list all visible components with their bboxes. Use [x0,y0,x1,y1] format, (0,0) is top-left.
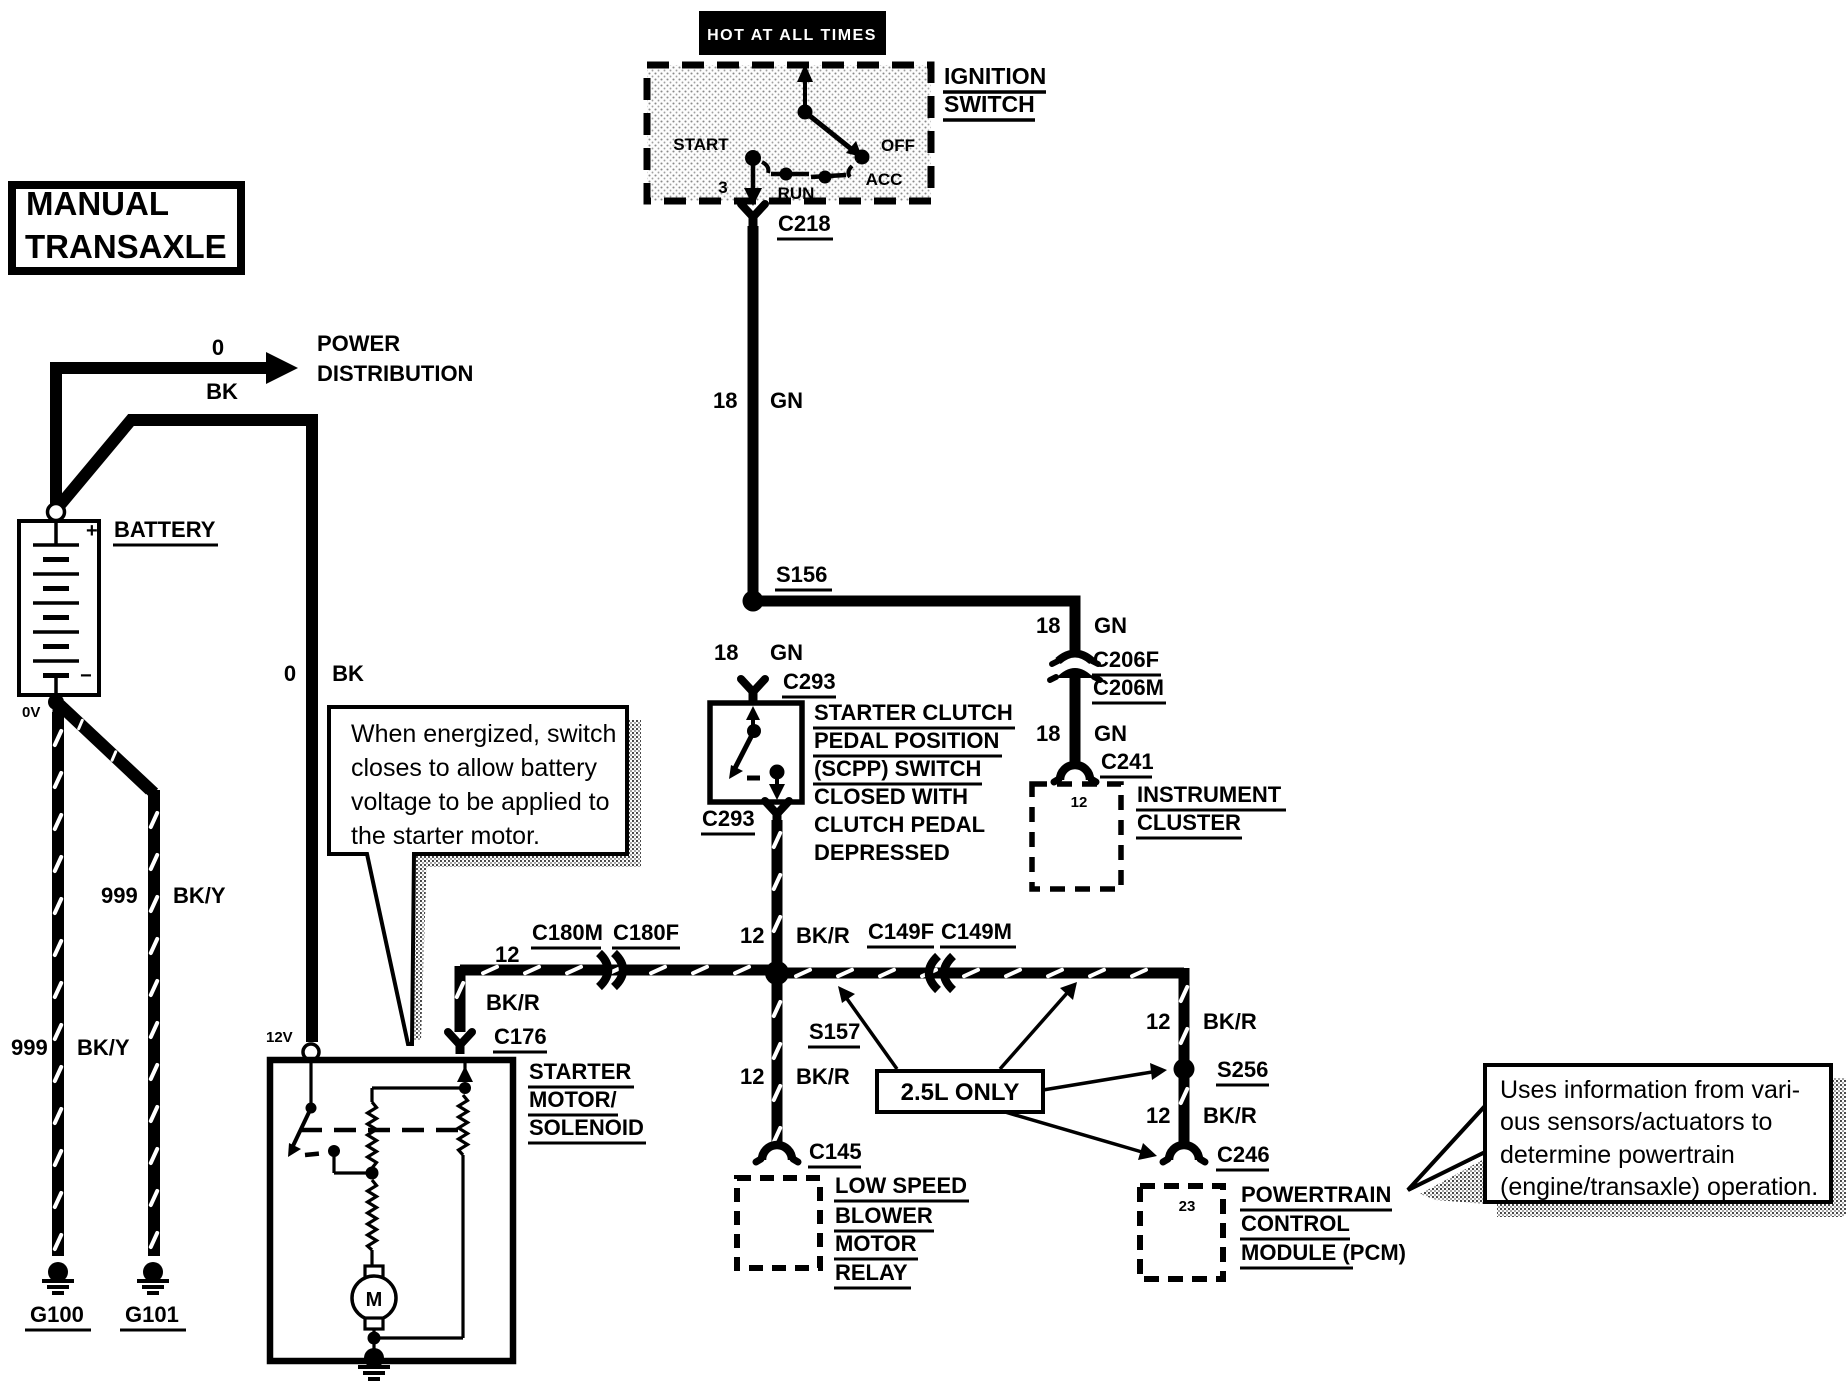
svg-text:CONTROL: CONTROL [1241,1211,1350,1236]
svg-text:12V: 12V [266,1029,293,1046]
svg-text:12: 12 [1146,1009,1170,1034]
svg-text:STARTER CLUTCH: STARTER CLUTCH [814,700,1013,725]
svg-text:C180F: C180F [613,920,679,945]
svg-text:C180M: C180M [532,920,603,945]
svg-text:C149F: C149F [868,919,934,944]
svg-text:BK/R: BK/R [796,923,850,948]
svg-text:BK: BK [206,379,238,404]
callout shadow [412,720,641,1040]
svg-text:closes to allow battery: closes to allow battery [351,754,597,782]
motor field winding [368,1180,377,1268]
svg-text:voltage to be applied to: voltage to be applied to [351,788,610,816]
svg-text:C293: C293 [783,669,836,694]
svg-text:S156: S156 [776,562,827,587]
svg-text:GN: GN [770,640,803,665]
starter 12V terminal [303,1044,319,1060]
contact OFF [855,150,870,165]
connector C176 [448,1032,472,1054]
svg-text:POWERTRAIN: POWERTRAIN [1241,1182,1391,1207]
svg-text:the starter motor.: the starter motor. [351,822,540,850]
svg-text:MOTOR/: MOTOR/ [529,1087,617,1112]
motor M [352,1266,396,1352]
svg-text:0V: 0V [22,704,40,721]
svg-text:ous sensors/actuators to: ous sensors/actuators to [1500,1108,1772,1136]
svg-text:C218: C218 [778,211,831,236]
svg-text:3: 3 [718,178,727,197]
svg-text:2.5L ONLY: 2.5L ONLY [901,1079,1020,1106]
svg-text:C246: C246 [1217,1142,1270,1167]
battery [19,521,99,695]
connector C218 [741,204,765,226]
power feed box HOT AT ALL TIMES [699,11,886,55]
svg-text:23: 23 [1179,1198,1196,1215]
wire drop to C176 [457,966,463,1032]
svg-text:C206M: C206M [1093,675,1164,700]
svg-text:LOW SPEED: LOW SPEED [835,1173,967,1198]
svg-text:BK/R: BK/R [486,990,540,1015]
wire 12 BK/R C293 to S157 [774,820,780,968]
connector C206F C206M [1050,654,1100,681]
ignition switch box [647,65,931,201]
starter ground [358,1348,390,1379]
svg-text:C149M: C149M [941,919,1012,944]
connector C241 [1054,765,1096,782]
svg-text:18: 18 [714,640,738,665]
wire 18 GN to C241 [1070,677,1081,768]
wire 12 BK/R to S256 [1181,968,1187,1064]
battery negative terminal [48,694,64,710]
svg-text:999: 999 [11,1035,48,1060]
svg-text:0: 0 [212,335,224,360]
svg-text:18: 18 [1036,613,1060,638]
contact RUN [771,168,809,181]
svg-text:S256: S256 [1217,1057,1268,1082]
connector C149F C149M [929,956,953,990]
svg-text:12: 12 [1071,794,1088,811]
solenoid pull-in winding [366,1088,466,1180]
contact ACC [811,171,846,184]
svg-text:CLUTCH PEDAL: CLUTCH PEDAL [814,812,985,837]
splice S256 [1174,1059,1195,1080]
wire 999 BK/Y to G100 [53,708,64,1256]
connector C246 [1163,1145,1205,1162]
svg-text:START: START [673,135,729,154]
arrow to C246 wire [1005,1112,1157,1160]
svg-text:TRANSAXLE: TRANSAXLE [25,228,227,265]
svg-text:GN: GN [1094,721,1127,746]
callout uses information [1408,1065,1831,1202]
svg-text:BATTERY: BATTERY [114,517,216,542]
plunger dashed linkage [300,1128,465,1133]
connector C293 top [741,679,765,701]
wire battery to power distribution [56,352,298,508]
svg-text:MODULE (PCM): MODULE (PCM) [1241,1240,1406,1265]
svg-text:CLOSED WITH: CLOSED WITH [814,784,968,809]
svg-text:18: 18 [1036,721,1060,746]
callout 2 shadow [1420,1078,1846,1217]
wire 999 BK/Y to G101 [60,705,154,793]
title box MANUAL TRANSAXLE [12,185,241,271]
svg-text:12: 12 [740,1064,764,1089]
connector C145 [756,1145,798,1162]
wire 12 BK/R S157 to C145 [774,979,780,1146]
wire 12 BK/R S256 to C246 [1181,1074,1187,1146]
svg-text:DISTRIBUTION: DISTRIBUTION [317,361,473,386]
svg-text:C293: C293 [702,806,755,831]
ground G101 [137,1262,169,1293]
svg-text:GN: GN [770,388,803,413]
svg-text:BK/R: BK/R [796,1064,850,1089]
svg-text:BK/Y: BK/Y [77,1035,130,1060]
svg-text:12: 12 [740,923,764,948]
svg-text:STARTER: STARTER [529,1059,631,1084]
svg-text:RELAY: RELAY [835,1260,908,1285]
svg-text:12: 12 [495,942,519,967]
wire 0 BK battery to starter [60,420,312,1042]
svg-text:When energized, switch: When energized, switch [351,720,616,748]
ground G100 [42,1262,74,1293]
note box 2.5L ONLY [877,1071,1043,1112]
svg-text:MANUAL: MANUAL [26,185,169,222]
svg-text:18: 18 [713,388,737,413]
svg-text:IGNITION: IGNITION [944,63,1046,89]
instrument cluster box [1032,784,1121,889]
arrow to S157 wire [838,986,897,1069]
svg-text:(engine/transaxle) operation.: (engine/transaxle) operation. [1500,1173,1818,1201]
svg-text:SOLENOID: SOLENOID [529,1115,644,1140]
svg-text:(SCPP) SWITCH: (SCPP) SWITCH [814,756,981,781]
svg-text:+: + [86,520,98,542]
battery positive terminal [48,504,65,521]
svg-text:CLUSTER: CLUSTER [1137,810,1241,835]
svg-text:GN: GN [1094,613,1127,638]
wire 12 BK/R to starter solenoid [460,967,772,973]
svg-text:BK/R: BK/R [1203,1009,1257,1034]
wire 999 BK/Y G100 hatch [55,712,61,1256]
motor ground junction [368,1332,381,1345]
connector C293 bottom [765,801,789,823]
wire 12 BK/R S157 to S256 branch [783,970,1184,976]
svg-text:MOTOR: MOTOR [835,1231,917,1256]
wire 999 BK/Y G101 vertical [151,790,157,1256]
arrow to C149 wire [1000,982,1077,1069]
arrow to S256 [1043,1063,1167,1090]
contact START with output arrow pin 3 [744,150,768,206]
svg-text:M: M [366,1289,383,1311]
starter motor solenoid box [270,1060,513,1361]
svg-text:POWER: POWER [317,331,400,356]
svg-text:C206F: C206F [1093,647,1159,672]
SCPP switch box [710,703,802,802]
svg-text:BK/R: BK/R [1203,1103,1257,1128]
solenoid hold-in winding [374,1060,473,1338]
svg-text:BK: BK [332,661,364,686]
wire 18 GN ignition to S156 [748,226,759,596]
svg-text:12: 12 [1146,1103,1170,1128]
powertrain control module box [1140,1186,1223,1279]
splice S157 [765,961,789,985]
svg-text:SWITCH: SWITCH [944,91,1035,117]
ignition switch wiper [797,64,862,177]
svg-text:G101: G101 [125,1302,179,1327]
connector C180M C180F [599,953,623,987]
svg-text:Uses information from vari-: Uses information from vari- [1500,1076,1800,1104]
svg-text:RUN: RUN [778,184,815,203]
svg-text:0: 0 [284,661,296,686]
svg-text:OFF: OFF [881,136,915,155]
svg-text:C241: C241 [1101,749,1154,774]
contact to coil junction [305,1145,372,1173]
callout when energized [329,707,627,1044]
svg-text:−: − [80,665,92,687]
svg-text:C176: C176 [494,1024,547,1049]
svg-text:BLOWER: BLOWER [835,1203,933,1228]
solenoid contact switch [288,1060,317,1157]
splice S156 [743,591,764,612]
svg-text:BK/Y: BK/Y [173,883,226,908]
wire S156 to instrument cluster branch [753,601,1075,650]
SCPP switch internals [729,706,785,800]
svg-text:ACC: ACC [866,170,903,189]
wire G101 diagonal hatch [63,708,150,790]
svg-text:INSTRUMENT: INSTRUMENT [1137,782,1282,807]
svg-text:DEPRESSED: DEPRESSED [814,840,950,865]
svg-text:999: 999 [101,883,138,908]
svg-text:G100: G100 [30,1302,84,1327]
svg-text:PEDAL POSITION: PEDAL POSITION [814,728,999,753]
svg-text:C145: C145 [809,1139,862,1164]
low speed blower motor relay box [737,1178,820,1268]
svg-text:determine powertrain: determine powertrain [1500,1141,1735,1169]
svg-text:S157: S157 [809,1019,860,1044]
svg-text:HOT AT ALL TIMES: HOT AT ALL TIMES [707,27,877,44]
